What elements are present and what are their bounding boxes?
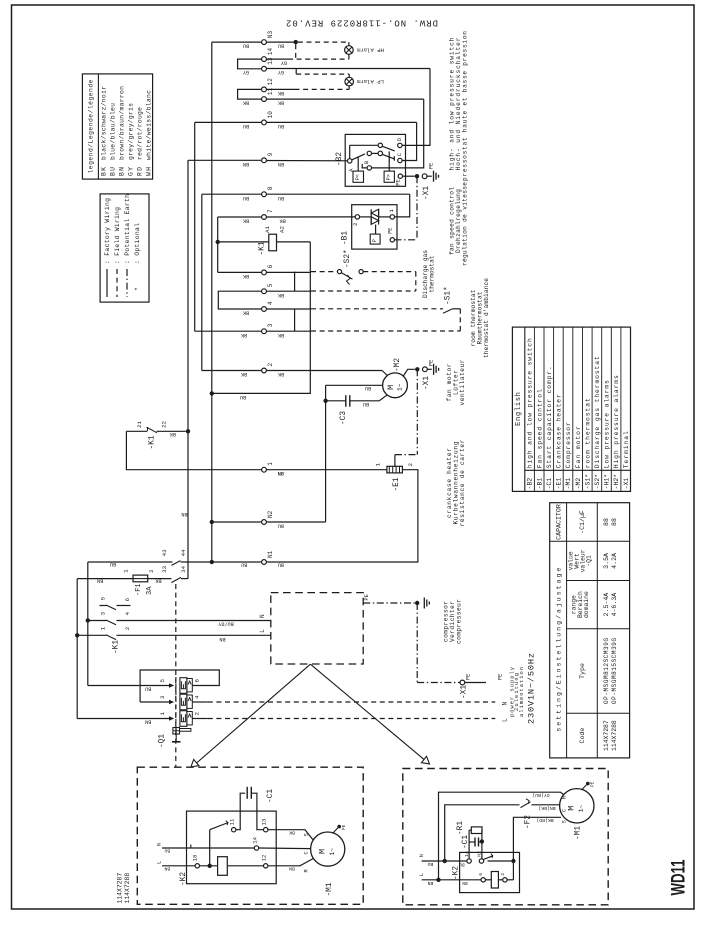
svg-text:4-6.3A: 4-6.3A: [611, 593, 618, 617]
Q1 input wires: [88, 685, 169, 687]
terminal -X1 PE (B2): [422, 174, 427, 179]
svg-text:-M1: -M1: [575, 826, 583, 840]
svg-text:114X7287: 114X7287: [603, 720, 610, 751]
svg-text:PE: PE: [429, 163, 435, 169]
strap terminals 14-13: [238, 59, 262, 69]
svg-text:P>: P>: [386, 174, 392, 180]
svg-text:CAPACITOR: CAPACITOR: [555, 504, 562, 540]
svg-text:BU: BU: [278, 522, 284, 528]
svg-text:3: 3: [100, 611, 107, 615]
svg-text:S: S: [303, 833, 309, 836]
svg-text:A1: A1: [264, 226, 271, 233]
svg-text:Fan motor: Fan motor: [575, 426, 582, 468]
svg-text:WD11: WD11: [668, 859, 690, 895]
svg-text:legend/Legende/légende: legend/Legende/légende: [88, 79, 95, 173]
node N1 on bus A: [210, 560, 214, 564]
node L to C (detail 2): [436, 878, 440, 882]
svg-text:-M2: -M2: [575, 478, 582, 490]
svg-text:BK: BK: [277, 90, 284, 96]
svg-text:L: L: [501, 718, 508, 722]
svg-text:Discharge gas thermostat: Discharge gas thermostat: [594, 356, 601, 468]
svg-text:régulation de vitesse: régulation de vitesse: [462, 182, 469, 266]
compressor L wire with contact K1 1-2: [77, 634, 106, 636]
supply PE dash-dot: [417, 682, 460, 684]
svg-text:Type: Type: [579, 663, 586, 679]
svg-text:: Optional: : Optional: [134, 223, 141, 264]
Q1 pole 3-4: [169, 700, 174, 704]
svg-text:230V1N~/50Hz: 230V1N~/50Hz: [526, 653, 536, 724]
terminal -X1:7: [262, 215, 267, 220]
contact K1 5-6 (spare): [100, 605, 107, 607]
node K2 coil: [208, 864, 212, 868]
svg-text:33: 33: [161, 565, 168, 572]
svg-text:BK: BK: [169, 431, 176, 437]
svg-text:N: N: [501, 702, 508, 706]
svg-text:-E1: -E1: [393, 477, 401, 491]
B2 contact arm from A: [352, 154, 365, 160]
wire terminal 8 to bus D: [202, 193, 262, 195]
Q1 pole 1-2: [169, 716, 174, 720]
svg-text:GY: GY: [127, 167, 134, 176]
legend box line styles: [100, 194, 149, 302]
wire 13-line down to B2 contact D: [403, 69, 431, 146]
svg-text:-Q1: -Q1: [159, 734, 167, 748]
terminal -X1:2: [262, 368, 267, 373]
svg-text:6: 6: [194, 679, 201, 683]
wire N to K2-14 to motor C: [162, 847, 254, 849]
svg-text:BU: BU: [365, 385, 371, 391]
terminal -X1:12: [262, 87, 267, 92]
M1 PE stud (detail 1): [333, 828, 338, 834]
svg-text:PE: PE: [428, 360, 434, 366]
wire terminal 8 line to B1: [267, 193, 410, 195]
K2 terminal 11: [232, 828, 236, 832]
legend potential earth: [126, 269, 128, 297]
terminal -X1:14: [262, 57, 267, 62]
Q1 output to supply N: [192, 701, 207, 703]
svg-text:3: 3: [159, 695, 166, 699]
terminal -X1:3: [262, 329, 267, 334]
B2 terminal B: [367, 166, 371, 170]
wire fan motor left winding: [326, 384, 383, 386]
svg-text:3A: 3A: [146, 586, 154, 595]
wire N2 to bus A: [212, 521, 262, 523]
start resistor -R1: [468, 830, 470, 859]
svg-text:BK: BK: [289, 829, 295, 835]
svg-text:BN: BN: [289, 865, 295, 871]
svg-text:2.5-4A: 2.5-4A: [603, 593, 610, 617]
svg-text:-K1: -K1: [113, 640, 121, 654]
svg-text:PE: PE: [342, 824, 347, 830]
B2 contact arm to C: [382, 154, 394, 159]
svg-text:-C1: -C1: [267, 789, 275, 803]
relay -K2 box (detail 1): [187, 811, 277, 884]
svg-text:1: 1: [159, 712, 166, 716]
wire terminal 3 solid: [267, 330, 311, 332]
svg-text:PE: PE: [387, 228, 393, 234]
svg-text:1~: 1~: [396, 383, 403, 391]
terminal -X1:10: [262, 120, 267, 125]
fuse -F1 3A: [77, 578, 133, 580]
node fan motor PE: [415, 367, 419, 371]
terminal -X1:5: [262, 289, 267, 294]
bus down to Q1 pole 5: [87, 562, 89, 686]
pressure switch -B2 box: [345, 134, 405, 186]
node K1 coil feed on bus E: [216, 240, 220, 244]
svg-text:1: 1: [100, 626, 107, 630]
pointer lines to detail boxes: [197, 664, 311, 763]
wire terminal 13 line: [267, 68, 430, 70]
svg-text:2: 2: [124, 626, 131, 630]
svg-text:résistance de carter: résistance de carter: [459, 439, 466, 526]
capacitor -C3: [325, 385, 327, 401]
svg-text:13: 13: [261, 819, 268, 826]
svg-text:grey/grey/gris: grey/grey/gris: [127, 103, 134, 160]
B2 terminal PE: [398, 174, 402, 178]
fan speed control -B1 box: [352, 205, 397, 249]
svg-text:white/weiss/blanc: white/weiss/blanc: [145, 90, 152, 160]
contactor coil -K1 A1-A2: [218, 241, 269, 243]
K2 terminal 16 (detail 2): [481, 878, 485, 882]
svg-text:2: 2: [407, 463, 414, 467]
svg-text:N: N: [259, 614, 266, 618]
B2 pivot circle D-arm: [378, 143, 382, 147]
svg-text:-R1: -R1: [457, 821, 465, 835]
Q1 loop pole6 to pole3: [140, 670, 219, 702]
PE dash-dot down to supply: [416, 603, 418, 683]
K2 relay contact arm (detail 1): [209, 830, 211, 866]
wire terminal 7 line to B1: [267, 216, 356, 218]
svg-text:BK: BK: [242, 218, 249, 224]
start capacitor -C1 (detail 1): [236, 793, 245, 830]
svg-text:black/schwarz/noir: black/schwarz/noir: [100, 86, 107, 160]
K2 contact arm (detail 2): [483, 856, 493, 860]
lamp LP Alarm -H1: [345, 77, 354, 86]
svg-text:L: L: [259, 629, 266, 633]
svg-text:BU: BU: [110, 561, 116, 567]
node N2 on bus A: [210, 520, 214, 524]
svg-text:1~: 1~: [329, 848, 336, 856]
svg-text:-K2: -K2: [453, 866, 461, 880]
svg-text:N2: N2: [267, 510, 274, 518]
svg-text:BU: BU: [428, 861, 434, 867]
K2 terminal 18: [195, 864, 199, 868]
relay -K2 box (detail 2): [460, 852, 520, 892]
supply N dashed: [208, 701, 495, 703]
svg-text:BK: BK: [242, 310, 249, 316]
detail box 1 dashed: [137, 767, 363, 904]
svg-text:11: 11: [267, 87, 274, 95]
svg-text:2: 2: [194, 712, 201, 716]
wire L to K2-18: [162, 865, 195, 867]
node K1-22 on bus C: [186, 429, 190, 433]
wire terminal 10 to bus B: [195, 121, 262, 123]
earth symbol at fan motor PE: [433, 364, 435, 375]
wire E1 to N1 line: [267, 470, 418, 562]
compressor dashed box: [271, 593, 363, 664]
svg-text:BN: BN: [219, 636, 225, 642]
svg-text:5: 5: [267, 283, 274, 287]
wire K1-21 to terminal 1 line: [126, 431, 261, 469]
svg-text:8: 8: [267, 186, 274, 190]
terminal -X1 PE (supply): [460, 680, 465, 685]
svg-text:1: 1: [388, 209, 395, 213]
wire N1 feed with contact K1 43-44: [88, 561, 173, 563]
svg-text:GY: GY: [280, 60, 287, 66]
svg-text:7: 7: [267, 209, 274, 213]
terminal -X1 PE (fan motor): [423, 367, 428, 372]
compressor motor -M1 (detail 1): [311, 832, 345, 866]
wire S1* dashed loop to terminal 3: [459, 309, 461, 331]
svg-text:5: 5: [159, 679, 166, 683]
svg-text:D: D: [396, 137, 403, 141]
svg-text:BU/GY: BU/GY: [217, 620, 233, 626]
svg-text:6: 6: [124, 597, 131, 601]
legend factory wiring: [106, 269, 108, 297]
svg-text:114X7288: 114X7288: [611, 720, 618, 751]
B2 wire A up: [349, 145, 351, 158]
strap terminals 6-5 right: [294, 272, 296, 292]
svg-text:4: 4: [124, 611, 131, 615]
contact -K1 21-22: [126, 430, 147, 432]
svg-text:Code: Code: [579, 728, 586, 744]
terminal -X1:9: [262, 158, 267, 163]
svg-text:C: C: [303, 851, 309, 854]
svg-text:BU: BU: [363, 401, 369, 407]
svg-text:2: 2: [267, 363, 274, 367]
svg-text:BK: BK: [277, 332, 284, 338]
earth symbol at B2 PE: [433, 171, 435, 182]
wire terminal 14 to HP lamp: [267, 58, 288, 60]
wire S to motor (detail 2): [513, 817, 561, 861]
svg-text:Crankcase heater: Crankcase heater: [556, 394, 563, 468]
svg-text:18: 18: [191, 855, 198, 862]
node compressor PE: [415, 601, 419, 605]
terminal -X1:13: [262, 66, 267, 71]
B2 terminal C: [398, 158, 402, 162]
svg-text:BK: BK: [277, 371, 284, 377]
node A2-return on bus A: [210, 391, 214, 395]
svg-text:1: 1: [123, 569, 130, 573]
wire terminal 4 dashed to S1*: [267, 308, 311, 310]
svg-text:alimentation: alimentation: [519, 667, 525, 717]
bus from fuse down to Q1 pole 1: [76, 579, 78, 717]
svg-text:-S2*: -S2*: [594, 474, 601, 490]
wire bus B to terminal 3: [195, 330, 262, 332]
legend box colours: [82, 74, 152, 179]
wire bus E to terminal 6: [218, 271, 262, 273]
svg-text:Low pressure alarms: Low pressure alarms: [604, 380, 611, 468]
svg-text:LP Alarm: LP Alarm: [356, 78, 383, 85]
potential earth dash-dot to E1: [416, 369, 418, 454]
svg-text:BN: BN: [428, 880, 434, 886]
svg-text:-X1: -X1: [423, 186, 431, 200]
svg-text:5: 5: [100, 596, 107, 600]
svg-text:114X7287: 114X7287: [117, 873, 124, 904]
fan motor -M2: [383, 373, 408, 398]
svg-text:red/rot/rouge: red/rot/rouge: [136, 107, 143, 160]
svg-text:-B2: -B2: [336, 152, 344, 166]
svg-text:Fan speed control: Fan speed control: [536, 389, 543, 468]
wire terminal 12 to LP lamp: [267, 88, 295, 90]
svg-text:11: 11: [229, 818, 236, 825]
svg-text:: Field Wiring: : Field Wiring: [114, 207, 121, 264]
svg-text:-F2: -F2: [524, 815, 532, 829]
settings table: [550, 503, 630, 758]
svg-text:BK: BK: [100, 167, 107, 176]
svg-text:*: *: [134, 287, 141, 291]
svg-text:PE: PE: [466, 674, 472, 680]
wire terminal 2 line to fan motor: [267, 370, 383, 372]
svg-text:English: English: [515, 392, 523, 426]
node alarm HP: [294, 40, 298, 44]
supply L dashed: [208, 718, 495, 720]
potential earth dash-dot B2-PE down to B1-PE: [416, 176, 418, 240]
svg-text:BU: BU: [278, 43, 284, 49]
K2 terminal 2 (detail 2): [503, 878, 507, 882]
svg-text:high and low pressure switch: high and low pressure switch: [527, 338, 534, 468]
svg-text:PE: PE: [396, 179, 402, 185]
wire fan motor to PE node: [403, 369, 415, 376]
svg-text:-M1: -M1: [326, 882, 334, 896]
svg-text:-C3: -C3: [340, 411, 348, 425]
svg-text:P<: P<: [355, 174, 361, 180]
wire terminal 10 line to B2 contact C: [267, 121, 417, 123]
compressor PE dash-dot: [363, 602, 415, 604]
svg-text:BN: BN: [97, 578, 103, 584]
svg-text:N1: N1: [267, 550, 274, 558]
svg-text:BN: BN: [145, 718, 151, 724]
svg-text:BN: BN: [118, 167, 125, 176]
svg-text:L: L: [157, 861, 163, 864]
svg-text:-S2*: -S2*: [344, 249, 352, 268]
B2 pressure element P<: [353, 171, 364, 182]
svg-text:88: 88: [603, 518, 610, 526]
svg-text:BK: BK: [155, 578, 162, 584]
earth symbol compressor PE: [423, 598, 425, 609]
svg-text:2: 2: [148, 569, 155, 573]
svg-text:ventilateur: ventilateur: [459, 359, 466, 405]
svg-text:BU: BU: [145, 685, 151, 691]
wire S2* dashed loop to terminal 5: [363, 271, 416, 273]
svg-text:GY: GY: [242, 69, 249, 75]
wire C3 down to N2: [325, 401, 327, 522]
B2 terminal A: [348, 159, 352, 163]
svg-text:BK: BK: [240, 332, 247, 338]
wire HP dashed: [298, 41, 349, 43]
English legend table: [512, 327, 630, 491]
K2 terminal 14: [254, 846, 258, 850]
svg-text:BN: BN: [181, 511, 187, 517]
svg-text:M: M: [318, 849, 328, 854]
N wire into K2 (detail 2): [422, 860, 467, 862]
svg-text:GY: GY: [277, 69, 284, 75]
terminal -X1:1: [262, 467, 267, 472]
wire terminal 9 to B2 terminal A: [267, 160, 348, 162]
svg-text:114X7288: 114X7288: [124, 873, 131, 904]
crankcase heater -E1: [267, 469, 387, 471]
detail box 2 dashed: [403, 769, 608, 905]
svg-text:34: 34: [180, 565, 187, 572]
svg-text:BK: BK: [242, 100, 249, 106]
svg-text:21: 21: [136, 421, 143, 428]
M1 PE stud (detail 2): [582, 785, 587, 790]
wire K2-12 to motor R: [268, 859, 313, 866]
start capacitor -C1 (detail 2): [469, 841, 475, 843]
wire C with overload -F2 (detail 2): [445, 805, 520, 861]
svg-text:OP-MSGM815SCM39G: OP-MSGM815SCM39G: [611, 638, 618, 704]
B2 terminal D: [398, 143, 402, 147]
terminal -X1:N3: [262, 40, 267, 45]
svg-text:6: 6: [267, 264, 274, 268]
node L-wire: [75, 633, 79, 637]
svg-text:room thermostat: room thermostat: [584, 398, 591, 468]
thermostat switch -S2*: [337, 270, 341, 274]
svg-text:13: 13: [267, 57, 274, 65]
svg-text:M: M: [386, 385, 396, 390]
wire terminal 11 line to B2 contact B: [267, 98, 424, 100]
svg-text:-X1: -X1: [423, 376, 431, 390]
svg-text:-C1: -C1: [546, 478, 553, 490]
svg-text:BU: BU: [278, 195, 284, 201]
svg-text:OP-MSGM812SCM39G: OP-MSGM812SCM39G: [603, 638, 610, 704]
strap terminals 4-3 right: [294, 309, 296, 331]
svg-text:4: 4: [267, 301, 274, 305]
svg-text:-H2*: -H2*: [613, 474, 620, 490]
svg-text:-S1*: -S1*: [584, 474, 591, 490]
svg-text:BK: BK: [277, 292, 284, 298]
svg-text:-E1: -E1: [556, 478, 563, 490]
svg-text:-B2: -B2: [527, 478, 534, 490]
svg-text:4.2A: 4.2A: [611, 553, 618, 569]
svg-text:PE: PE: [591, 781, 596, 787]
svg-text:2: 2: [352, 222, 359, 226]
svg-text:BU: BU: [243, 123, 249, 129]
svg-text:-X1: -X1: [461, 685, 469, 699]
B1 terminal 2: [355, 215, 359, 219]
svg-text:N: N: [157, 843, 163, 846]
svg-text:BU: BU: [164, 848, 170, 854]
K2 terminal 12: [264, 864, 268, 868]
node N-wire: [86, 618, 90, 622]
svg-text:PE: PE: [498, 674, 504, 680]
B1 triac symbol: [371, 209, 378, 217]
terminal -X1:11: [262, 97, 267, 102]
bus line C: [187, 160, 189, 578]
svg-text:1: 1: [375, 463, 382, 467]
B2 contact arm to D: [382, 146, 394, 151]
node S (detail 2): [511, 859, 515, 863]
B1 terminal 1: [390, 215, 394, 219]
svg-text:BU: BU: [243, 195, 249, 201]
bus line E: [217, 217, 219, 272]
svg-text:C: C: [396, 152, 403, 156]
svg-text:BK: BK: [277, 100, 284, 106]
B2 pressure element P>: [384, 171, 394, 182]
svg-text:BK: BK: [242, 273, 249, 279]
svg-text:compresseur: compresseur: [456, 599, 463, 644]
K2 coil (detail 2): [485, 879, 491, 881]
svg-text:10: 10: [267, 111, 274, 119]
svg-text:GY(BU): GY(BU): [532, 792, 549, 798]
svg-text:BN(BK): BN(BK): [538, 805, 555, 811]
K2 terminal 13: [264, 828, 268, 832]
svg-text:3: 3: [267, 323, 274, 327]
svg-text:1: 1: [267, 462, 274, 466]
wire terminal 5: [267, 290, 311, 292]
svg-text:S: S: [562, 820, 568, 823]
L wire into K2 (detail 2): [422, 879, 481, 881]
